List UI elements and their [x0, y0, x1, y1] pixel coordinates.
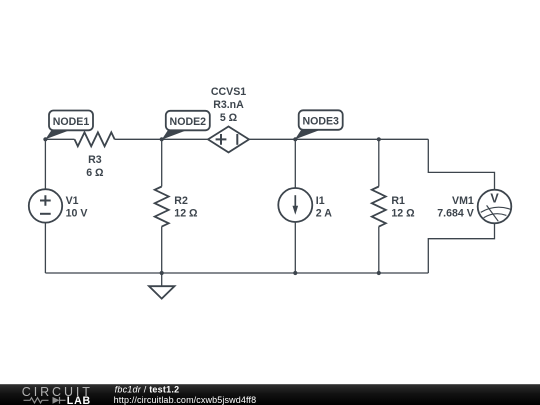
wire: I1 branch bottom: [294, 222, 296, 273]
label V1 value: [66, 195, 88, 220]
svg-text:CCVS1: CCVS1: [211, 86, 246, 98]
svg-text:6 Ω: 6 Ω: [86, 167, 104, 179]
wire: voltmeter loop top: [428, 139, 494, 189]
svg-text:R2: R2: [174, 195, 188, 207]
current source I1: [278, 188, 312, 222]
svg-text:VM1: VM1: [452, 195, 474, 207]
wire: I1 branch top: [294, 139, 296, 188]
resistor R2: [155, 187, 169, 227]
voltage source V1: [29, 189, 62, 222]
svg-text:I1: I1: [316, 195, 325, 207]
wire: R2 branch bottom: [161, 227, 163, 274]
svg-text:2 A: 2 A: [316, 208, 332, 220]
label I1 value: [316, 195, 332, 220]
svg-text:10 V: 10 V: [66, 208, 88, 220]
wire: R1 branch bottom: [378, 227, 380, 274]
resistor R3: [75, 132, 386, 226]
logo CircuitLab wordmark: [22, 385, 93, 405]
svg-text:NODE2: NODE2: [170, 116, 207, 128]
label R1 value: [391, 195, 415, 220]
svg-text:V1: V1: [66, 195, 79, 207]
svg-text:NODE3: NODE3: [302, 116, 339, 128]
svg-text:NODE1: NODE1: [53, 116, 90, 128]
svg-text:12 Ω: 12 Ω: [391, 208, 415, 220]
wire: left branch V1 bottom: [44, 223, 46, 273]
ground: [149, 273, 175, 299]
label R2 value: [174, 195, 198, 220]
footer title text: [114, 385, 257, 405]
wire: R3 to NODE2: [115, 138, 209, 140]
resistor R1: [372, 187, 386, 227]
wire: R2 branch top: [161, 139, 163, 186]
logo squiggle resistor-diode: [24, 397, 66, 404]
label CCVS1 value: [211, 86, 246, 124]
wire: left branch V1 top: [44, 139, 46, 189]
wire: R1 branch top: [378, 139, 380, 186]
svg-text:http://circuitlab.com/cxwb5jsw: http://circuitlab.com/cxwb5jswd4ff8: [114, 395, 257, 405]
dependent source CCVS1: [208, 127, 249, 153]
node label NODE1: [45, 111, 93, 140]
label VM1 value: [437, 195, 474, 220]
svg-text:fbc1dr / test1.2: fbc1dr / test1.2: [115, 385, 180, 395]
wire: voltmeter loop bottom: [428, 223, 494, 273]
wire: bottom rail: [45, 272, 428, 274]
footer bar: [0, 384, 540, 405]
label R3 value: [86, 154, 104, 179]
svg-text:12 Ω: 12 Ω: [174, 208, 198, 220]
svg-text:R3.nA: R3.nA: [213, 99, 244, 111]
node label NODE3: [295, 110, 343, 139]
svg-text:7.684 V: 7.684 V: [437, 208, 474, 220]
svg-text:LAB: LAB: [67, 395, 91, 405]
node junction dots: [43, 137, 381, 275]
svg-text:V: V: [490, 192, 499, 206]
wire: top rail NODE1 to R3: [45, 139, 494, 273]
node label NODE2: [162, 111, 210, 140]
svg-text:R1: R1: [391, 195, 405, 207]
svg-text:R3: R3: [88, 154, 102, 166]
voltmeter VM1: [478, 190, 512, 224]
svg-text:5 Ω: 5 Ω: [220, 112, 238, 124]
wire: CCVS1 right to corner: [249, 138, 428, 140]
